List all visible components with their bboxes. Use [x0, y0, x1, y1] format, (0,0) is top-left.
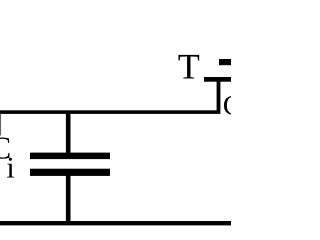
capacitor Ci top plate — [30, 153, 110, 160]
transistor T label — [178, 55, 199, 79]
label Ci : subscript i — [7, 158, 14, 178]
wire: bottom horizontal rail full width — [0, 221, 231, 225]
label C (cropped at right image edge) — [224, 96, 240, 115]
wire: gate lead down to top rail — [217, 81, 221, 111]
transistor T gate bar (cropped at right edge) — [204, 77, 231, 82]
transistor T channel bar (cropped at right edge) — [219, 59, 231, 65]
capacitor Ci bottom plate — [30, 169, 110, 176]
wire: capacitor bottom lead to bottom rail — [66, 175, 71, 223]
wire: faint cropped vertical wire sliver at left edge — [0, 114, 1, 136]
label Ci : capital C cropped by left image edge — [0, 138, 9, 159]
wire: top horizontal rail from left edge to transistor gate lead — [0, 110, 220, 114]
wire: capacitor top lead — [66, 112, 71, 153]
